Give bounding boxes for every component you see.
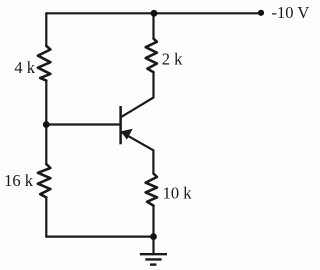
node base dot xyxy=(43,121,50,128)
wire collector lead xyxy=(122,72,154,117)
svg-text:2 k: 2 k xyxy=(162,50,183,69)
svg-text:4 k: 4 k xyxy=(14,58,35,77)
svg-text:-10 V: -10 V xyxy=(272,3,310,22)
wire right vertical top xyxy=(152,13,154,38)
wire bottom rail xyxy=(46,236,153,238)
node bottom junction dot xyxy=(150,233,157,240)
node junction dot top xyxy=(151,10,158,17)
svg-text:10 k: 10 k xyxy=(163,184,193,203)
resistor R2 16k xyxy=(38,164,51,197)
transistor Q1 emitter arrowhead xyxy=(121,129,133,140)
ground xyxy=(140,254,167,264)
wire emitter bottom xyxy=(152,206,154,237)
wire emitter lead xyxy=(122,133,153,174)
svg-text:16 k: 16 k xyxy=(4,171,34,190)
resistor R4 10k xyxy=(146,174,157,206)
wire ground stem xyxy=(152,237,154,254)
resistor R1 4k xyxy=(38,46,51,81)
wire left vertical lower xyxy=(45,125,47,165)
node terminal dot -10V xyxy=(258,10,264,16)
wire left vertical bottom xyxy=(45,197,47,236)
wire left vertical upper xyxy=(45,13,47,46)
transistor Q1 base bar xyxy=(119,106,122,144)
wire base lead xyxy=(46,123,120,125)
wire top rail xyxy=(46,12,261,14)
resistor R3 2k xyxy=(146,39,157,73)
wire left vertical middle xyxy=(45,81,47,125)
